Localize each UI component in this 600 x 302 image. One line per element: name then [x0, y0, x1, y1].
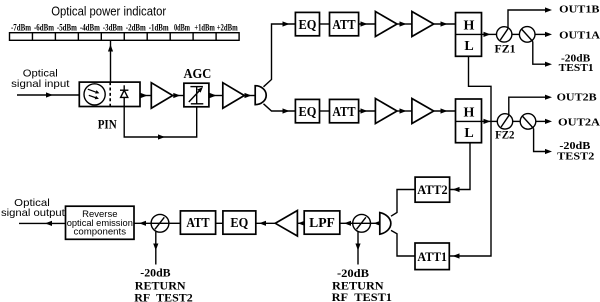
svg-text:ATT: ATT — [186, 215, 209, 230]
svg-text:OUT2B: OUT2B — [557, 92, 598, 104]
wire: diplexer 2 low port to ATT2 — [450, 143, 470, 192]
amplifier A3 — [375, 12, 397, 37]
attenuator ATT1 box — [415, 243, 449, 270]
coupler FZ1 circle 2 — [519, 27, 535, 43]
label -20dB RETURN RF TEST2 — [134, 266, 192, 302]
svg-text:-20dB: -20dB — [140, 266, 170, 280]
wire: between FZ2 circles — [513, 120, 521, 122]
coupler FZ1 circle 1 — [497, 27, 512, 42]
wire: RF TEST2 coupler tap — [153, 232, 158, 265]
svg-text:EQ: EQ — [299, 17, 317, 32]
wire: between FZ1 circles — [512, 33, 520, 35]
wire: LPF to amplifier A7 — [297, 221, 304, 226]
svg-text:EQ: EQ — [230, 215, 248, 230]
wire: PIN module up to power indicator — [108, 40, 113, 82]
svg-text:0dBm: 0dBm — [174, 23, 190, 33]
reverse optical emission components box — [66, 206, 135, 239]
dashed divider in PIN module — [109, 82, 111, 106]
svg-text:PIN: PIN — [98, 117, 118, 132]
diplexer H/L box 1 — [456, 13, 482, 57]
amplifier A1 — [151, 83, 172, 109]
svg-text:L: L — [464, 126, 473, 141]
svg-text:H: H — [464, 19, 475, 34]
coupler RF TEST1 — [353, 214, 371, 232]
svg-text:AGC: AGC — [184, 66, 212, 81]
attenuator ATT box return path — [180, 211, 215, 234]
svg-text:ATT1: ATT1 — [417, 250, 447, 264]
wire: return ATT to RF TEST2 coupler — [169, 222, 181, 224]
svg-text:-3dBm: -3dBm — [103, 23, 123, 33]
wire: A1 to AGC — [173, 93, 184, 98]
wire: optical signal input — [17, 92, 79, 97]
equalizer EQ box row1 — [295, 12, 319, 35]
coupler FZ2 circle 1 — [497, 114, 512, 129]
wire: A2 to splitter — [244, 93, 255, 98]
svg-text:TEST1: TEST1 — [559, 62, 594, 74]
svg-text:-4dBm: -4dBm — [80, 23, 100, 33]
wire: A6 to diplexer 2 — [434, 108, 456, 113]
wire: FZ1 tap to OUT1B — [508, 7, 552, 28]
attenuator ATT box row2 — [330, 99, 359, 122]
equalizer EQ box return path — [223, 211, 256, 234]
wire: RF TEST1 coupler to LPF — [340, 221, 353, 226]
optical lens symbol in PIN module — [84, 84, 105, 105]
wire: ATT to amplifier A5 — [359, 108, 376, 113]
wire: splitter to EQ row1 — [264, 21, 296, 86]
optical receiver PIN module box — [79, 82, 140, 106]
svg-text:OUT1A: OUT1A — [559, 29, 600, 41]
wire: diplexer 1 low port to ATT1 — [449, 56, 491, 258]
svg-text:TEST2: TEST2 — [557, 151, 595, 163]
wire: EQ to ATT row2 — [320, 110, 330, 112]
svg-text:-5dBm: -5dBm — [57, 23, 77, 33]
wire: FZ2 to OUT2A — [536, 119, 552, 124]
svg-text:RF TEST1: RF TEST1 — [332, 290, 392, 302]
svg-text:+2dBm: +2dBm — [217, 23, 238, 33]
wire: diplexer 1 to FZ1 — [482, 32, 497, 37]
coupler RF TEST2 — [151, 214, 169, 232]
label -20dB RETURN RF TEST1 — [332, 266, 392, 302]
svg-text:components: components — [74, 227, 127, 238]
svg-text:H: H — [464, 105, 475, 120]
label: Optical signal input — [11, 68, 69, 91]
photodiode symbol — [120, 85, 128, 106]
svg-text:LPF: LPF — [309, 215, 335, 230]
wire: optical signal output — [19, 221, 66, 226]
wire: combiner to RF TEST1 coupler — [370, 221, 380, 226]
wire: FZ1 tap to TEST1 — [533, 42, 552, 67]
svg-text:RF TEST2: RF TEST2 — [134, 291, 192, 302]
amplifier A7 reverse — [275, 211, 297, 237]
svg-text:signal output: signal output — [1, 207, 65, 219]
svg-text:ATT: ATT — [332, 17, 355, 32]
svg-text:EQ: EQ — [299, 104, 317, 119]
wire: FZ2 tap to OUT2B — [509, 95, 552, 116]
wire: A4 to diplexer 1 — [434, 21, 456, 26]
wire: diplexer 2 to FZ2 — [482, 119, 498, 124]
attenuator ATT box row1 — [330, 12, 359, 35]
optical power indicator dBm scale labels — [11, 23, 238, 33]
wire: AGC to amplifier A2 — [209, 93, 223, 98]
wire: EQ to ATT row1 — [320, 23, 330, 25]
amplifier A4 — [412, 12, 434, 37]
equalizer EQ box row2 — [295, 99, 319, 122]
label -20dB TEST1 — [559, 53, 594, 75]
svg-text:-2dBm: -2dBm — [126, 23, 146, 33]
amplifier A5 — [375, 99, 397, 124]
amplifier A6 — [412, 99, 434, 124]
attenuator ATT2 box — [415, 177, 450, 202]
svg-text:ATT: ATT — [332, 104, 355, 119]
wire: A3 to A4 — [397, 21, 412, 26]
wire: FZ1 to OUT1A — [535, 32, 552, 37]
label: Optical signal output — [1, 197, 65, 219]
wire: A5 to A6 — [397, 108, 412, 113]
wire: A7 to return EQ — [256, 221, 275, 226]
wire: return EQ to return ATT — [216, 222, 223, 224]
wire: FZ2 tap to TEST2 — [534, 129, 552, 155]
wire: ATT2 to combiner — [391, 190, 415, 217]
wire: PIN module to amplifier A1 — [140, 93, 151, 98]
label -20dB TEST2 — [557, 140, 595, 162]
low pass filter LPF box — [304, 211, 340, 234]
splitter S1 — [255, 86, 266, 105]
combiner S2 — [380, 213, 391, 235]
svg-text:+1dBm: +1dBm — [194, 23, 215, 33]
svg-text:-7dBm: -7dBm — [11, 23, 31, 33]
wire: PIN photodiode feedback to AGC — [124, 107, 197, 140]
svg-text:OUT1B: OUT1B — [559, 4, 600, 16]
svg-text:-1dBm: -1dBm — [149, 23, 169, 33]
wire: RF TEST2 coupler to reverse optical box — [134, 221, 151, 226]
svg-text:ATT2: ATT2 — [417, 183, 447, 197]
svg-text:-6dBm: -6dBm — [34, 23, 54, 33]
svg-text:FZ1: FZ1 — [495, 42, 516, 56]
svg-text:L: L — [464, 39, 473, 54]
AGC attenuator box — [184, 83, 209, 107]
wire: ATT to amplifier A3 — [359, 21, 376, 26]
wire: ATT1 to combiner — [391, 230, 415, 256]
amplifier A2 — [223, 83, 245, 109]
wire: splitter to EQ row2 — [264, 104, 296, 114]
diplexer H/L box 2 — [456, 99, 482, 143]
optical power indicator bar — [10, 33, 240, 41]
svg-text:FZ2: FZ2 — [495, 128, 514, 142]
svg-text:OUT2A: OUT2A — [558, 116, 600, 128]
wire: RF TEST1 coupler tap — [355, 232, 360, 265]
svg-text:signal input: signal input — [11, 78, 69, 90]
coupler FZ2 circle 2 — [520, 114, 536, 130]
svg-text:Optical power indicator: Optical power indicator — [51, 4, 167, 19]
